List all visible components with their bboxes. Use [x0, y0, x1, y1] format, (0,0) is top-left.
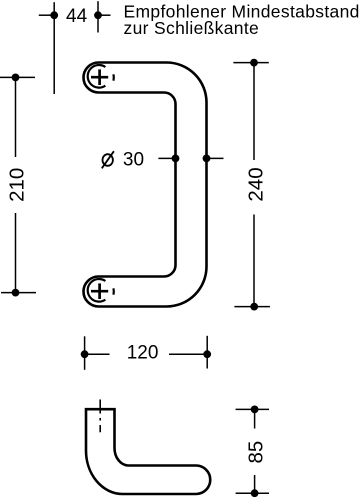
svg-text:210: 210 [6, 168, 29, 202]
top mounting boss: hidden edge dash [112, 74, 115, 80]
bottom mounting boss: screw head circle (visible arc) [88, 279, 106, 302]
diameter leader line right segment [204, 157, 224, 159]
handle outline side view [86, 409, 210, 494]
top mounting boss: screw head circle (visible arc) [88, 65, 106, 88]
dimension 240: bottom terminator dot [250, 303, 258, 311]
dimension 120: left extension line [84, 336, 86, 370]
diameter leader line left segment [158, 157, 177, 159]
dimension 85: top terminator dot [251, 406, 259, 414]
dimension 120: dimension line right segment [169, 353, 207, 355]
dimension 240: dimension line upper segment [253, 63, 255, 160]
top mounting boss: screw cross horizontal [91, 76, 108, 79]
dimension 240: bottom extension line [234, 306, 270, 308]
dimension 210: dimension line lower segment [15, 213, 17, 293]
dimension 210: bottom extension line [1, 292, 36, 294]
svg-text:120: 120 [127, 343, 159, 364]
dimension 44: extension line right (handle axis) [97, 1, 99, 32]
dimension 85: bottom terminator dot [251, 489, 259, 497]
bottom mounting boss: screw cross horizontal [91, 290, 108, 293]
dimension 44: left terminator dot [50, 11, 58, 19]
dimension 210: bottom terminator dot [12, 289, 20, 297]
note text: Empfohlener Mindestabstand zur Schliesskante [124, 2, 359, 39]
svg-text:85: 85 [244, 441, 267, 464]
dimension 240: top terminator dot [250, 59, 258, 67]
dimension 44: extension line left (closing edge) [53, 2, 55, 94]
dimension 85: bottom extension line [236, 492, 269, 494]
dimension 44: dimension line right segment [98, 14, 111, 16]
dimension 85: dimension line upper segment [254, 409, 256, 428]
diameter leader right dot [203, 155, 211, 163]
dimension 240: dimension line lower segment [253, 215, 255, 307]
dimension 210: top terminator dot [12, 74, 20, 82]
dimension 44: dimension line left segment [39, 14, 54, 16]
diameter symbol slash [102, 151, 114, 168]
svg-text:240: 240 [244, 167, 267, 201]
dimension 120: right terminator dot [203, 350, 211, 358]
diameter symbol circle [103, 154, 113, 166]
bottom mounting boss: screw cross vertical [98, 283, 101, 299]
dimension 44: right terminator dot [94, 11, 102, 19]
svg-text:30: 30 [123, 149, 144, 170]
handle outline front view [84, 63, 207, 307]
dimension 240: top extension line [233, 62, 268, 64]
diameter leader left dot [172, 155, 180, 163]
svg-text:44: 44 [66, 6, 88, 27]
svg-text:zur Schließkante: zur Schließkante [124, 18, 260, 38]
dimension 210: dimension line upper segment [15, 77, 17, 157]
bottom mounting boss: hidden edge dash [112, 288, 115, 294]
dimension 120: left terminator dot [81, 350, 89, 358]
side view center line (dash-dot) [99, 400, 101, 433]
dimension 210: top extension line [0, 76, 35, 78]
top mounting boss: screw cross vertical [98, 69, 101, 85]
dimension 85: top extension line [236, 408, 269, 410]
dimension 120: right extension line [206, 336, 208, 369]
dimension 85: dimension line lower segment [254, 475, 256, 493]
dimension 120: dimension line left segment [85, 353, 110, 355]
